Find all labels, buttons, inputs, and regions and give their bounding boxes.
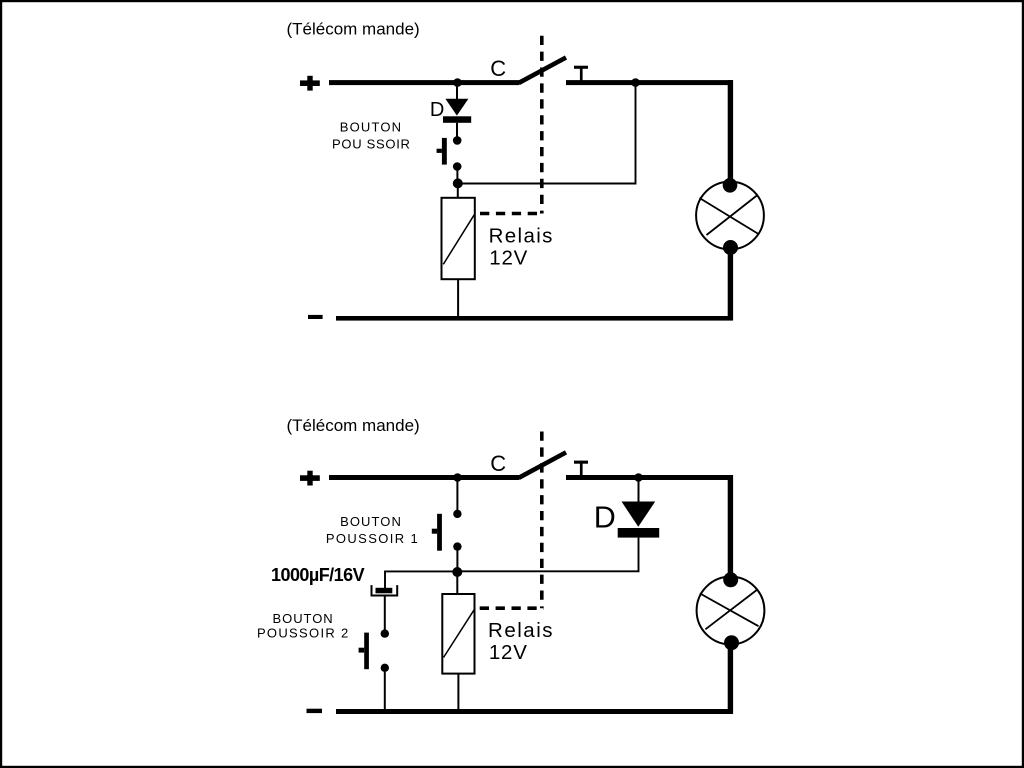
relay coil Relais 12V circuit 1 xyxy=(442,198,475,279)
wire: relay coil to bottom rail circuit 2 xyxy=(457,674,459,711)
lamp L circuit 2 xyxy=(697,572,765,650)
wire: push button 1 to coil junction circuit 2 xyxy=(456,547,458,572)
wire: junction to relay coil circuit 2 xyxy=(456,572,458,595)
wire: bottom rail circuit 1 xyxy=(336,316,733,321)
wire: +12V top rail right segment circuit 1 xyxy=(566,80,733,85)
svg-text:C: C xyxy=(490,451,506,476)
diode D circuit 1 xyxy=(443,85,471,140)
svg-text:(Télécom mande): (Télécom mande) xyxy=(287,416,420,435)
wire: push button 2 to bottom rail circuit 2 xyxy=(384,668,386,711)
svg-text:POU SSOIR: POU SSOIR xyxy=(332,136,410,151)
+ supply terminal circuit 2 xyxy=(300,471,320,486)
wire: +12V top rail right segment circuit 2 xyxy=(566,475,733,480)
label BOUTON POUSSOIR circuit 1 xyxy=(332,120,410,152)
capacitor 1000µF/16V xyxy=(372,585,398,595)
+ supply terminal circuit 1 xyxy=(300,76,320,91)
svg-text:12V: 12V xyxy=(489,641,527,664)
- supply terminal circuit 2 xyxy=(307,709,323,713)
svg-text:C: C xyxy=(490,56,506,81)
wire: +12V top rail left segment circuit 2 xyxy=(329,475,520,480)
wire: lamp to bottom rail circuit 1 xyxy=(728,252,733,321)
diode D circuit 2 xyxy=(458,480,659,571)
wire: bottom rail circuit 2 xyxy=(336,709,733,714)
switch C fixed contact T circuit 2 xyxy=(574,461,588,476)
node: junction of rail and diode branch circuit 1 xyxy=(453,78,462,87)
wire: right vertical from top rail to lamp circuit 2 xyxy=(728,475,733,575)
svg-text:1000µF/16V: 1000µF/16V xyxy=(271,565,365,585)
wire: thin sense wire down and left to coil node circuit 1 xyxy=(458,83,636,184)
lamp L circuit 1 xyxy=(696,178,764,255)
svg-text:(Télécom mande): (Télécom mande) xyxy=(287,20,420,39)
wire: rail junction to push button 1 circuit 2 xyxy=(456,480,458,510)
svg-text:Relais: Relais xyxy=(488,619,553,642)
svg-text:Relais: Relais xyxy=(489,224,553,247)
- supply terminal circuit 1 xyxy=(308,315,323,319)
svg-text:POUSSOIR 2: POUSSOIR 2 xyxy=(257,626,348,641)
svg-text:12V: 12V xyxy=(489,247,527,270)
wire: capacitor to push button 2 circuit 2 xyxy=(384,596,386,630)
switch C moving blade circuit 1 xyxy=(519,58,566,83)
wire: junction to relay coil circuit 1 xyxy=(457,183,459,198)
svg-text:POUSSOIR 1: POUSSOIR 1 xyxy=(326,531,418,546)
node: coil top junction circuit 1 xyxy=(453,178,463,188)
node: junction of rail and button branch circuit 2 xyxy=(453,473,462,482)
wire: lamp to bottom rail circuit 2 xyxy=(728,647,733,714)
wire: right vertical from top rail to lamp circuit 1 xyxy=(728,80,733,180)
svg-text:D: D xyxy=(594,500,616,534)
label Relais 12V circuit 2 xyxy=(488,619,553,664)
wire: button to coil junction circuit 1 xyxy=(456,167,458,184)
switch C fixed contact T circuit 1 xyxy=(574,66,588,81)
label Relais 12V circuit 1 xyxy=(489,224,553,269)
label BOUTON POUSSOIR 1 circuit 2 xyxy=(326,514,418,546)
node: junction feeding diode branch circuit 2 xyxy=(634,473,643,482)
svg-text:BOUTON: BOUTON xyxy=(273,611,333,626)
dashed mechanical linkage contact-to-coil circuit 1 xyxy=(480,36,544,214)
label BOUTON POUSSOIR 2 circuit 2 xyxy=(257,611,348,641)
node: junction feeding relay-contact sense wire circuit 1 xyxy=(631,78,640,87)
wire: junction to capacitor branch circuit 2 xyxy=(385,571,457,588)
push button BOUTON POUSSOIR 1 circuit 2 xyxy=(432,510,462,551)
svg-text:D: D xyxy=(430,99,444,121)
push button BOUTON POUSSOIR circuit 1 xyxy=(437,136,462,171)
wire: relay coil to bottom rail circuit 1 xyxy=(457,279,459,316)
node: coil top junction circuit 2 xyxy=(452,567,462,577)
dashed mechanical linkage contact-to-coil circuit 2 xyxy=(480,432,544,609)
switch C moving blade circuit 2 xyxy=(519,452,566,477)
wire: +12V top rail left segment circuit 1 xyxy=(329,80,520,85)
push button BOUTON POUSSOIR 2 circuit 2 xyxy=(359,629,389,672)
relay coil Relais 12V circuit 2 xyxy=(442,594,474,674)
